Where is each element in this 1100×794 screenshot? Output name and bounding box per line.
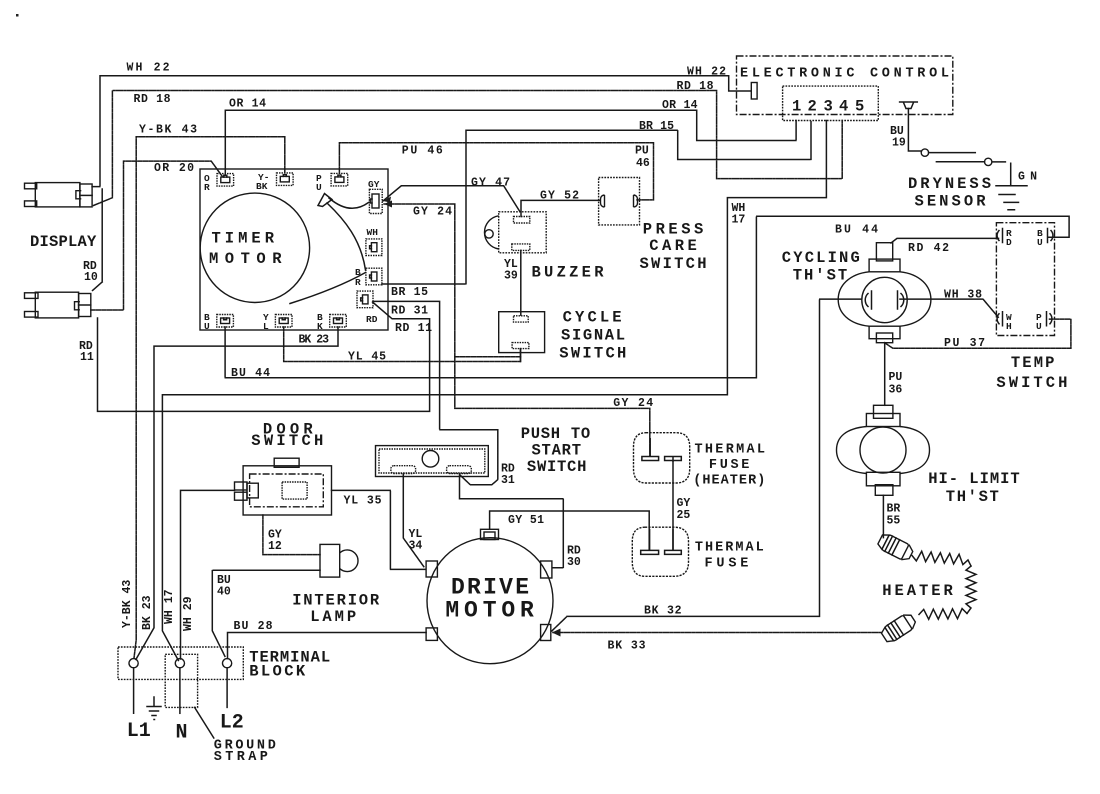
wire BR15 (382, 121, 811, 285)
electronic control box U2 (737, 56, 953, 115)
svg-text:WH 22: WH 22 (127, 62, 170, 75)
temp switch pin RD (997, 229, 1002, 243)
svg-text:WH 38: WH 38 (944, 289, 982, 302)
svg-text:U: U (204, 321, 210, 332)
svg-text:DRYNESS: DRYNESS (908, 175, 991, 193)
svg-text:BU 28: BU 28 (234, 620, 273, 633)
wire RD30 (460, 475, 564, 568)
timer motor circle (200, 193, 309, 302)
svg-text:GY 51: GY 51 (508, 514, 544, 527)
svg-text:Y-BK 43: Y-BK 43 (121, 580, 134, 628)
svg-text:GY: GY (368, 179, 380, 190)
wire BU44 (225, 216, 1069, 377)
svg-text:L1: L1 (127, 720, 151, 743)
press care switch S3 (599, 178, 640, 225)
svg-text:17: 17 (732, 214, 746, 227)
svg-text:THERMAL: THERMAL (695, 443, 766, 458)
svg-text:TEMP: TEMP (1011, 354, 1055, 372)
wire BU40 (212, 570, 320, 657)
svg-text:(HEATER): (HEATER) (693, 474, 765, 489)
svg-text:RD: RD (366, 314, 378, 325)
push to start switch S2 (376, 446, 489, 477)
sensor bar 1 (929, 152, 976, 154)
svg-text:SWITCH: SWITCH (527, 458, 587, 476)
ground strap box (165, 654, 197, 707)
ground strap pointer (195, 707, 214, 738)
wire GY24 with arrow (384, 204, 650, 456)
wire PU46 (339, 143, 653, 200)
wire OR14 (225, 110, 796, 174)
svg-text:R: R (204, 182, 210, 193)
svg-text:19: 19 (892, 137, 906, 150)
wire GY52 + buzzer stem (521, 200, 600, 216)
svg-text:30: 30 (567, 556, 581, 569)
svg-text:MOTOR: MOTOR (209, 250, 282, 268)
svg-text:40: 40 (217, 586, 231, 599)
svg-text:SWITCH: SWITCH (640, 255, 707, 273)
svg-text:H: H (1006, 321, 1012, 332)
svg-text:25: 25 (677, 509, 691, 522)
svg-text:PU: PU (635, 145, 649, 158)
svg-text:MOTOR: MOTOR (445, 598, 534, 624)
dryness sensor contact 2 (985, 158, 992, 165)
svg-text:L2: L2 (220, 712, 244, 735)
terminal L2 circle (223, 659, 232, 668)
timer cam curve to GY (329, 198, 369, 208)
motor terminal right-bottom (541, 625, 551, 641)
svg-text:2: 2 (808, 98, 817, 116)
svg-text:RD 42: RD 42 (908, 242, 949, 255)
svg-text:OR 14: OR 14 (662, 99, 698, 112)
svg-text:U: U (316, 182, 322, 193)
scan speck (16, 14, 19, 17)
wire WH22 (92, 76, 751, 187)
svg-text:WH: WH (367, 227, 379, 238)
svg-text:WH 17: WH 17 (163, 589, 176, 624)
heater plug connector 2 (880, 611, 918, 644)
svg-text:OR 20: OR 20 (154, 162, 194, 175)
thermal fuse F2 (632, 527, 688, 576)
wire Y-BK43 (134, 137, 285, 658)
svg-text:START: START (532, 442, 582, 460)
wire WH29 (181, 490, 235, 659)
svg-text:TH'ST: TH'ST (946, 488, 999, 506)
svg-text:OR 14: OR 14 (229, 98, 266, 111)
cycle signal switch S4 (499, 312, 545, 353)
wire BR55 (882, 495, 884, 537)
wire WH17 long (162, 121, 826, 661)
L2 lead (226, 668, 228, 708)
svg-text:Y-BK 43: Y-BK 43 (139, 124, 197, 137)
wire GN to ground (992, 162, 1011, 186)
terminal N circle (175, 659, 184, 668)
L1 lead (133, 668, 135, 714)
chassis symbol on control (900, 102, 918, 109)
wire BK32 (552, 299, 862, 631)
svg-text:PU 46: PU 46 (402, 145, 443, 158)
svg-text:PU: PU (889, 371, 903, 384)
terminal L1 circle (129, 659, 138, 668)
wire GY25 (672, 461, 674, 550)
svg-text:TIMER: TIMER (212, 230, 275, 248)
svg-text:BU 44: BU 44 (231, 367, 270, 380)
motor terminal left (426, 561, 437, 577)
heater plug connector 1 (876, 532, 914, 563)
cycle signal bottom stem (520, 349, 522, 362)
wire PU37 (885, 319, 1071, 348)
svg-text:4: 4 (839, 98, 848, 116)
ground symbol (strap) (147, 697, 161, 720)
svg-text:WH 22: WH 22 (687, 66, 726, 79)
wire BK33 with arrow (553, 632, 882, 634)
wire PU36 (884, 343, 886, 406)
svg-text:INTERIOR: INTERIOR (292, 592, 380, 610)
svg-text:N: N (176, 722, 188, 745)
temp switch pin WH (997, 312, 1002, 326)
svg-text:PRESS: PRESS (643, 221, 704, 239)
svg-text:BK 23: BK 23 (299, 334, 330, 347)
timer terminal WH with pin label (366, 227, 382, 256)
svg-text:BR 15: BR 15 (639, 120, 674, 133)
svg-text:TH'ST: TH'ST (793, 267, 848, 285)
svg-text:GY 47: GY 47 (471, 177, 510, 190)
svg-text:SWITCH: SWITCH (996, 374, 1067, 392)
svg-text:GY 24: GY 24 (613, 397, 653, 410)
timer terminal RD with pin label (357, 291, 378, 325)
svg-text:GN: GN (1018, 171, 1037, 184)
svg-text:YL 45: YL 45 (348, 351, 386, 364)
wire YL39 (520, 250, 522, 315)
motor terminal right-top (541, 561, 552, 578)
timer terminal GY with pin label (368, 179, 382, 214)
temp switch pin PU (1047, 312, 1052, 326)
svg-text:SIGNAL: SIGNAL (561, 327, 625, 345)
ground symbol (dryness) (996, 185, 1027, 187)
svg-text:U: U (1037, 237, 1043, 248)
svg-text:CYCLE: CYCLE (563, 309, 622, 327)
wire GY47 with arrow (383, 186, 520, 211)
timer terminal PU with pin label (316, 173, 348, 193)
heater element R1 zigzag top (912, 551, 971, 566)
timer terminal BR with pin label (355, 267, 382, 288)
svg-text:BUZZER: BUZZER (532, 264, 605, 282)
wire BU28 (228, 633, 427, 659)
wire RD18 (94, 91, 843, 206)
wire YL35 (332, 490, 427, 569)
svg-text:46: 46 (636, 157, 650, 170)
svg-text:D: D (1006, 237, 1012, 248)
svg-text:BLOCK: BLOCK (249, 663, 306, 681)
svg-text:YL 35: YL 35 (344, 495, 382, 508)
wire YL45 (284, 327, 521, 362)
svg-text:CYCLING: CYCLING (782, 249, 860, 267)
timer terminal BK with pin label (317, 312, 346, 332)
svg-text:10: 10 (84, 271, 98, 284)
dryness sensor contact 1 (921, 149, 928, 156)
motor terminal top (481, 529, 499, 539)
hi-limit thermostat TH2 (837, 405, 930, 495)
sensor bar 2 (936, 161, 984, 163)
wire YL45 branch to GY24 (455, 356, 521, 358)
thermal fuse (heater) F1 (634, 433, 690, 483)
N lead (179, 668, 181, 714)
svg-text:GY 52: GY 52 (540, 190, 579, 203)
svg-text:HI- LIMIT: HI- LIMIT (928, 470, 1020, 488)
svg-text:BK 23: BK 23 (141, 595, 154, 630)
svg-text:RD 18: RD 18 (677, 80, 714, 93)
svg-text:DISPLAY: DISPLAY (30, 233, 97, 251)
wire YL34 (403, 474, 424, 567)
heater element zigzag right (966, 566, 976, 614)
timer terminal YL with pin label (263, 312, 292, 332)
svg-text:SENSOR: SENSOR (915, 193, 987, 211)
svg-text:WH 29: WH 29 (182, 596, 195, 631)
svg-text:GY 24: GY 24 (413, 206, 452, 219)
svg-text:BR 15: BR 15 (391, 286, 428, 299)
terminal block TB1 (118, 647, 243, 679)
svg-text:34: 34 (409, 540, 423, 553)
cycling thermostat TH1 (838, 243, 931, 343)
drive motor M1 (427, 538, 553, 664)
svg-text:12: 12 (268, 540, 282, 553)
svg-text:HEATER: HEATER (882, 582, 953, 600)
motor terminal bottom-left (426, 628, 437, 641)
interior lamp DS1 (320, 544, 358, 577)
temp switch pin BU (1048, 229, 1053, 243)
svg-text:PUSH TO: PUSH TO (521, 425, 591, 443)
svg-text:11: 11 (80, 351, 94, 364)
svg-text:1: 1 (792, 98, 801, 116)
temp switch S5 (996, 223, 1054, 336)
wire GY51 (490, 511, 650, 550)
svg-text:5: 5 (855, 98, 864, 116)
timer terminal BU with pin label (204, 312, 233, 332)
svg-text:FUSE: FUSE (709, 458, 750, 473)
svg-text:BK 33: BK 33 (608, 640, 646, 653)
wire WH38 (900, 299, 999, 317)
svg-text:U: U (1036, 321, 1042, 332)
buzzer B1 (484, 212, 546, 253)
timer terminal OR with pin label (204, 173, 234, 193)
svg-text:SWITCH: SWITCH (559, 345, 626, 363)
svg-text:36: 36 (889, 384, 903, 397)
timer cam curve lower (290, 273, 366, 304)
svg-text:55: 55 (887, 515, 901, 528)
svg-text:R: R (355, 277, 361, 288)
svg-text:3: 3 (824, 98, 833, 116)
svg-text:39: 39 (504, 270, 518, 283)
svg-text:LAMP: LAMP (310, 608, 356, 626)
timer terminal Y-BK with pin label (256, 172, 293, 192)
wire BU19 (908, 109, 921, 152)
svg-text:PU 37: PU 37 (944, 337, 985, 350)
svg-text:BU 44: BU 44 (835, 224, 878, 237)
svg-text:BK: BK (256, 181, 268, 192)
svg-text:THERMAL: THERMAL (695, 541, 764, 556)
svg-text:CARE: CARE (649, 237, 697, 255)
wire RD11 (98, 302, 430, 411)
svg-text:ELECTRONIC CONTROL: ELECTRONIC CONTROL (740, 67, 949, 82)
svg-text:31: 31 (501, 474, 515, 487)
display connector P2 (bottom) (25, 292, 91, 318)
svg-text:RD 11: RD 11 (395, 322, 432, 335)
svg-text:STRAP: STRAP (214, 750, 268, 765)
wire RD42 (891, 238, 999, 243)
svg-text:L: L (263, 321, 269, 332)
wire OR20 (91, 161, 222, 310)
timer box (200, 169, 388, 330)
display connector P1 (top) (25, 183, 93, 207)
wire RD31 (373, 301, 498, 484)
svg-text:RD 18: RD 18 (134, 93, 171, 106)
control terminal box 1 2 3 4 5 (783, 86, 879, 120)
heater element zigzag bottom (919, 609, 967, 620)
timer cam flag (318, 194, 332, 207)
svg-text:BK 32: BK 32 (644, 605, 682, 618)
svg-text:RD 31: RD 31 (391, 305, 428, 318)
control component C1 (751, 83, 757, 100)
door switch S1 (235, 458, 332, 515)
wire BK23 (136, 327, 338, 660)
svg-text:K: K (317, 321, 323, 332)
svg-text:FUSE: FUSE (705, 557, 749, 572)
wire GY12 (263, 515, 320, 555)
wire RD10 (93, 189, 103, 291)
timer cam curve to BR (327, 203, 366, 270)
